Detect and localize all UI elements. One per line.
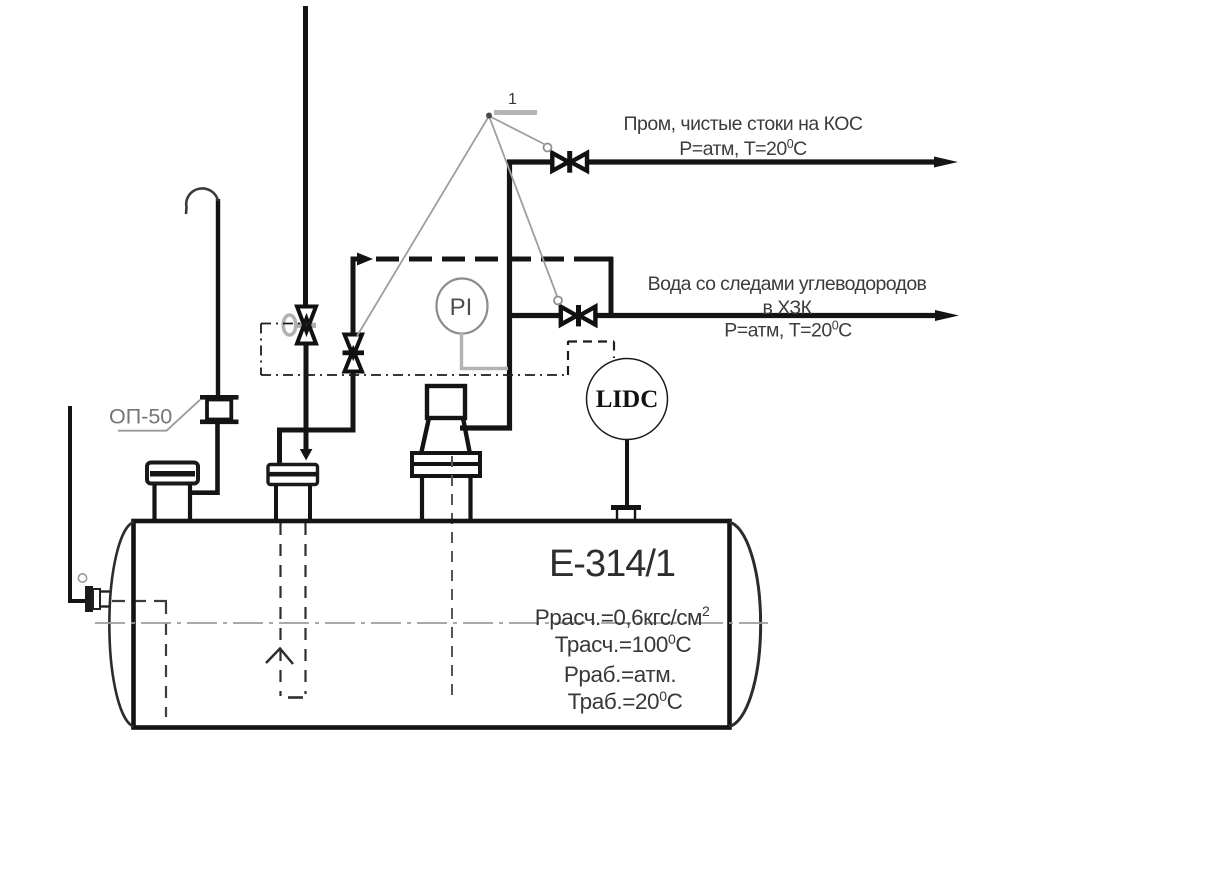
wire vent pipe elbow into nozzle N1: [190, 422, 218, 493]
svg-text:1: 1: [508, 91, 517, 108]
label OP-50: [109, 400, 200, 431]
wire clean effluent line to KOC with arrow: [507, 157, 958, 168]
label tank design parameters: [535, 603, 710, 714]
LIDC stem and flange: [611, 440, 641, 519]
wire thick dashed balance line to XZK elbow: [376, 257, 613, 316]
wire vertical feed pipe top: [303, 6, 308, 305]
valve V1 on feed pipe: [283, 307, 316, 344]
tank centerline dash-dot: [95, 622, 768, 624]
svg-text:Вода со следами углеводородов: Вода со следами углеводородов: [648, 273, 927, 295]
instrument PI: [437, 279, 488, 334]
nozzle N1 neck: [155, 484, 191, 520]
actuator tap circle on valve V4: [554, 297, 562, 305]
wire water line to XZK with arrow: [507, 310, 959, 321]
label XZK line: [648, 273, 927, 342]
wire main process pipe vertical: [460, 160, 510, 428]
svg-text:Ррасч.=0,6кгс/см2: Ррасч.=0,6кгс/см2: [535, 603, 710, 630]
wire drain line elbow into nozzle N2: [280, 370, 354, 465]
label tank tag: [549, 543, 675, 585]
nozzle N1 flange: [147, 463, 198, 484]
svg-text:ОП-50: ОП-50: [109, 405, 172, 429]
svg-text:PI: PI: [450, 294, 473, 321]
vent hook pipe: [186, 188, 218, 397]
wire feed pipe below valve with arrow into nozzle N2: [300, 344, 313, 461]
svg-text:Пром, чистые стоки на КОС: Пром, чистые стоки на КОС: [623, 113, 862, 135]
nozzle N3 dashed centerline: [451, 456, 453, 697]
label KOC line: [623, 113, 862, 160]
manhole nozzle N3 neck: [422, 476, 471, 520]
manhole nozzle N3 cone: [421, 418, 470, 454]
actuator tap circle on valve V3: [544, 144, 552, 152]
wire PI impulse line: [462, 333, 509, 369]
wire level-gauge standpipe left: [70, 406, 86, 601]
dip tube dashed inside tank: [266, 523, 306, 698]
svg-text:LIDC: LIDC: [596, 386, 659, 413]
left internal dashed gauge line: [112, 601, 168, 717]
flame arrester OP-50: [200, 397, 239, 422]
instrument LIDC: [587, 359, 668, 440]
node 1 with signal leader lines: [357, 91, 557, 336]
manhole nozzle N3 cap box: [427, 386, 465, 418]
svg-text:Е-314/1: Е-314/1: [549, 543, 675, 585]
nozzle N2 flange: [268, 465, 318, 485]
svg-text:Рраб.=атм.: Рраб.=атм.: [564, 662, 676, 687]
manhole nozzle N3 flange: [412, 453, 480, 476]
nozzle N2 neck: [276, 485, 310, 520]
valve V3 on KOC line: [552, 151, 587, 173]
tank E-314/1 shell: [109, 521, 760, 728]
vent hole circle on side nozzle: [78, 574, 86, 582]
valve V2 drain line: [343, 335, 365, 372]
valve V4 on XZK line: [561, 305, 596, 326]
side nozzle fitting on left head: [85, 586, 111, 612]
instrument boundary dash-dot: [261, 324, 614, 376]
wire drain line up from valve V2 with right arrow: [353, 253, 373, 335]
svg-text:в ХЗК: в ХЗК: [763, 297, 813, 319]
